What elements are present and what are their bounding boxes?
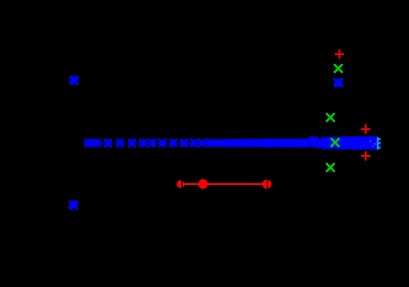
red plus marker P2 xyxy=(361,124,370,133)
red plus marker P4 (under band) xyxy=(366,138,375,147)
green x marker G2 xyxy=(326,113,335,122)
purple specks over dense band xyxy=(370,140,376,147)
blue point cluster C (x=73.3, y=204.9) xyxy=(69,200,78,209)
red plus marker P5 (under band) xyxy=(370,138,379,147)
red circle marker center xyxy=(198,179,208,189)
red errorbar horizontal line xyxy=(181,183,267,185)
blue point cluster B (x=338.2, y=82.7) xyxy=(334,78,343,87)
teal end-cluster at right end of band xyxy=(377,137,381,149)
green x marker G4 xyxy=(326,163,335,172)
red plus marker P1 xyxy=(335,49,344,58)
red circle marker right cap xyxy=(262,180,271,189)
red circle marker left cap xyxy=(177,180,185,188)
green x marker G3 (on band) xyxy=(331,138,340,147)
blue data band: series of x/+/o markers along y=143 xyxy=(83,136,381,150)
green x marker G1 xyxy=(334,64,343,73)
blue point cluster A (x=73.8, y=80.2) xyxy=(69,76,78,85)
red plus marker P3 xyxy=(361,151,370,160)
